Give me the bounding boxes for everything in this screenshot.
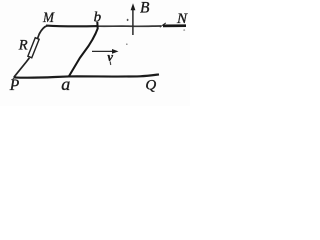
arrow v head: [112, 49, 119, 54]
wire: left rail upper segment above resistor: [37, 34, 39, 39]
svg-text:P: P: [9, 77, 20, 94]
arrow B shaft: [132, 9, 134, 36]
svg-text:R: R: [18, 37, 28, 53]
wire: top rail thick segment under N: [163, 24, 186, 27]
wire: top rail MN thin segment: [46, 25, 98, 28]
wire: top rail tick flourish near x=163: [160, 23, 166, 27]
wire: small overshoot hook at P corner: [13, 75, 17, 80]
conducting rod ab: [69, 22, 98, 77]
svg-text:b: b: [94, 10, 102, 26]
arrow B head: [131, 3, 136, 10]
svg-text:M: M: [42, 10, 55, 26]
arrow v shaft: [92, 50, 114, 52]
svg-text:N: N: [176, 11, 188, 27]
small ink speck left of B arrow: [127, 19, 129, 21]
svg-text:Q: Q: [145, 77, 156, 93]
wire: top rail continuation right of rod: [98, 25, 161, 27]
wire: left corner curve at M: [39, 26, 47, 34]
faint speck below thick rail end: [183, 29, 185, 30]
wire: bottom rail PQ: [14, 74, 159, 77]
stray mark below v: [109, 62, 112, 66]
wire: left rail lower segment below resistor to P: [14, 58, 30, 77]
faint speck right of v arrow: [126, 44, 128, 45]
resistor R box: [28, 38, 39, 58]
svg-text:a: a: [61, 74, 70, 94]
svg-text:B: B: [140, 0, 150, 17]
